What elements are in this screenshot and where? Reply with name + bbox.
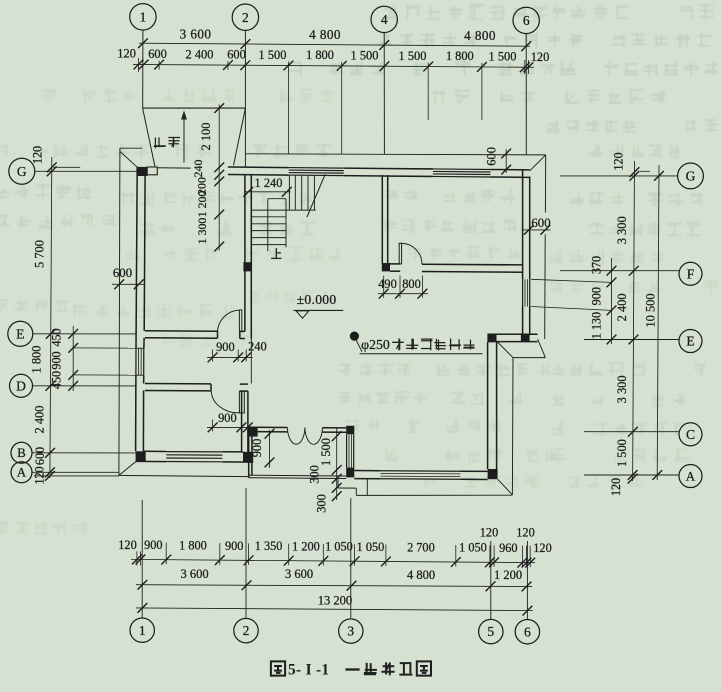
- svg-text:370: 370: [590, 256, 604, 274]
- svg-text:G: G: [17, 164, 27, 179]
- svg-text:600: 600: [148, 47, 167, 61]
- column blk bottom-left2: [243, 452, 253, 462]
- wall2 jamb right: [240, 383, 248, 385]
- left sub dim line: [72, 326, 74, 391]
- svg-text:1 050: 1 050: [357, 540, 385, 554]
- svg-text:900: 900: [50, 351, 64, 369]
- column blk hall wall: [243, 262, 251, 271]
- svg-text:450: 450: [50, 328, 64, 346]
- axis line 6 stem: [525, 34, 527, 155]
- svg-text:1 800: 1 800: [30, 346, 44, 374]
- svg-text:960: 960: [499, 541, 517, 555]
- svg-text:5 700: 5 700: [32, 240, 46, 268]
- east wall lower: [487, 342, 489, 469]
- svg-text:600: 600: [227, 48, 246, 62]
- svg-text:1 200: 1 200: [292, 539, 320, 553]
- svg-text:1 500: 1 500: [351, 49, 379, 63]
- canopy diag SE-c: [498, 479, 513, 495]
- svg-text:1: 1: [139, 623, 146, 638]
- svg-text:E: E: [686, 334, 694, 349]
- eave top line: [245, 154, 545, 155]
- svg-text:1: 1: [140, 10, 147, 25]
- svg-text:240: 240: [191, 160, 205, 178]
- eave bottom-left line: [119, 475, 249, 476]
- svg-text:5- I -1: 5- I -1: [288, 661, 329, 678]
- axis circle 1 top: [130, 4, 156, 30]
- svg-text:450: 450: [50, 371, 64, 389]
- svg-text:4 800: 4 800: [407, 568, 435, 582]
- interior wall 2 (room2 south): [145, 383, 211, 385]
- right sub dim line: [611, 258, 613, 344]
- svg-text:120: 120: [33, 466, 47, 484]
- svg-text:120: 120: [30, 146, 44, 164]
- svg-text:1 500: 1 500: [489, 50, 517, 64]
- svg-text:1 300: 1 300: [195, 218, 209, 245]
- right axis lines: [560, 175, 678, 177]
- bottom-left exterior wall: [136, 460, 167, 462]
- eave corner diagonal TL: [120, 152, 137, 168]
- window W2 top-right (1800): [433, 168, 491, 171]
- window W1 stair (1800): [289, 167, 344, 170]
- eave left vertical: [119, 148, 120, 475]
- axis circle 6 top: [513, 7, 539, 33]
- stair well lines: [267, 199, 269, 251]
- bottom axis stems: [141, 500, 143, 618]
- upper-right room west wall: [381, 175, 383, 264]
- label caption-cengpingmian: [364, 663, 377, 675]
- svg-text:600: 600: [113, 266, 132, 280]
- svg-text:300: 300: [308, 465, 322, 484]
- svg-text:900: 900: [144, 538, 162, 552]
- svg-text:2: 2: [243, 623, 250, 638]
- svg-text:13 200: 13 200: [318, 593, 352, 607]
- svg-text:3 300: 3 300: [615, 216, 629, 244]
- canopy right vertical: [511, 358, 514, 495]
- canopy diag SE-b: [538, 339, 546, 358]
- svg-text:3: 3: [347, 624, 354, 639]
- stair hall west wall: [244, 175, 246, 332]
- door D2 leaf: [239, 391, 244, 413]
- label ramp label 坡道: [154, 137, 166, 148]
- svg-text:4 800: 4 800: [309, 27, 341, 42]
- svg-text:2 100: 2 100: [199, 123, 213, 151]
- left axis lines: [35, 170, 137, 172]
- svg-text:2 400: 2 400: [186, 47, 214, 61]
- svg-text:2: 2: [242, 10, 249, 25]
- svg-text:A: A: [17, 465, 27, 480]
- upper-right room south wall: [390, 263, 400, 265]
- row1 extension lines: [165, 543, 167, 565]
- svg-text:1 200: 1 200: [494, 568, 522, 582]
- axis circle 2 top: [232, 4, 258, 30]
- svg-text:120: 120: [609, 478, 623, 496]
- east exterior wall: [522, 171, 524, 280]
- stair break diagonal: [307, 174, 325, 217]
- porch north wall + double door: [249, 426, 288, 428]
- door D3 leaf: [399, 243, 401, 264]
- svg-text:6: 6: [524, 624, 531, 639]
- left wall-edge extension at G: [54, 166, 81, 168]
- svg-text:300: 300: [315, 494, 329, 513]
- dim row 2 bottom: [136, 585, 532, 587]
- wall1 jamb at hall: [240, 330, 245, 332]
- column dot phi250: [350, 332, 359, 341]
- svg-text:1 500: 1 500: [615, 439, 629, 467]
- svg-text:G: G: [686, 169, 696, 184]
- hall floor edge line: [250, 339, 252, 384]
- column blk top-left: [137, 167, 147, 176]
- door D1 leaf: [239, 310, 241, 332]
- row B extension lines: [287, 62, 289, 154]
- stair upper flight risers: [288, 175, 290, 210]
- svg-text:4: 4: [381, 12, 388, 27]
- dim row A top (3600/4800/4800): [139, 43, 530, 46]
- bottom axis circles: [130, 618, 154, 642]
- left main dim line: [50, 157, 52, 478]
- left window ext lines: [73, 347, 136, 349]
- ramp arrow: [183, 118, 185, 163]
- right window ext lines: [531, 279, 612, 282]
- caption 图5-I-1 一层平面图: [271, 661, 285, 675]
- svg-text:1 500: 1 500: [399, 49, 427, 63]
- stair landing edge: [251, 209, 315, 211]
- column blk west wall base: [382, 263, 390, 271]
- svg-text:±0.000: ±0.000: [297, 292, 337, 307]
- axis line 4 stem: [383, 33, 385, 155]
- svg-text:D: D: [16, 378, 26, 393]
- right axis circles: [678, 163, 704, 189]
- svg-text:2 400: 2 400: [615, 293, 629, 321]
- canopy edge SE: [513, 357, 545, 359]
- double door arcs: [287, 428, 305, 445]
- door D1 swing arc: [217, 310, 239, 333]
- svg-text:1 500: 1 500: [319, 438, 333, 466]
- column blk SE-1: [487, 334, 496, 342]
- svg-text:900: 900: [225, 539, 243, 553]
- svg-text:1 500: 1 500: [259, 48, 287, 62]
- stair up label: [271, 248, 281, 258]
- svg-text:3 600: 3 600: [285, 567, 313, 581]
- svg-text:900: 900: [250, 439, 264, 458]
- divider wall left rooms: [241, 391, 243, 452]
- window W6 south (2700): [380, 470, 460, 473]
- right outer dim line 10500: [657, 165, 659, 480]
- ramp right slant: [234, 108, 246, 165]
- porch right columns/window: [346, 426, 354, 434]
- svg-text:120: 120: [516, 526, 534, 540]
- svg-text:2 700: 2 700: [407, 540, 435, 554]
- axis line 1 stem: [142, 30, 144, 108]
- svg-text:2 400: 2 400: [32, 406, 46, 434]
- svg-text:10 500: 10 500: [644, 293, 658, 327]
- eave top-left segment: [120, 147, 142, 149]
- svg-text:B: B: [17, 445, 26, 460]
- svg-text:1 350: 1 350: [255, 539, 283, 553]
- right main dim line: [633, 161, 635, 481]
- svg-text:900: 900: [590, 287, 604, 305]
- dim row B top (120/600/2400/600/1500/1800...): [133, 64, 534, 67]
- axis circle 4 top: [371, 6, 397, 32]
- svg-text:3 600: 3 600: [180, 26, 212, 41]
- dim row 1 bottom: [131, 559, 535, 562]
- entry threshold line: [157, 167, 190, 169]
- svg-text:4 800: 4 800: [464, 28, 496, 43]
- svg-text:900: 900: [216, 340, 235, 354]
- ramp top edge: [143, 107, 246, 109]
- eave corner diagonal TR: [530, 155, 546, 171]
- svg-text:120: 120: [611, 152, 625, 170]
- svg-text:3 600: 3 600: [180, 567, 208, 581]
- svg-text:1 800: 1 800: [306, 48, 334, 62]
- svg-text:600: 600: [485, 147, 499, 166]
- svg-text:120: 120: [531, 50, 550, 64]
- svg-text:E: E: [16, 326, 24, 341]
- door D2 swing arc: [211, 391, 239, 413]
- porch south wall: [249, 474, 347, 477]
- south wall BR room: [354, 470, 380, 472]
- entry pier outline: [147, 167, 157, 175]
- svg-text:120: 120: [480, 525, 498, 539]
- side entrance north wall: [487, 333, 537, 335]
- porch left wall: [248, 427, 250, 478]
- svg-text:3 300: 3 300: [615, 375, 629, 403]
- column blk porch NW: [249, 427, 258, 436]
- svg-text:C: C: [686, 427, 695, 442]
- svg-text:5: 5: [487, 624, 494, 639]
- canopy diag SE-a: [497, 341, 514, 358]
- interior wall 1 (room1 south): [145, 330, 218, 333]
- window W3 left (900): [136, 347, 144, 349]
- porch steps: [337, 479, 339, 488]
- column blk SE-3: [488, 469, 498, 479]
- eave corner diagonal BL: [119, 462, 136, 476]
- column blk SE-2: [521, 334, 530, 342]
- svg-text:1 800: 1 800: [446, 49, 474, 63]
- svg-text:120: 120: [117, 47, 136, 61]
- top exterior wall: [228, 166, 289, 169]
- column blk bottom-left: [136, 451, 146, 461]
- svg-text:1 130: 1 130: [590, 312, 604, 339]
- ramp left slant: [143, 108, 155, 167]
- canopy bottom line: [356, 494, 512, 496]
- left exterior wall: [136, 167, 137, 348]
- svg-text:1 200: 1 200: [195, 191, 209, 218]
- door D3 swing arc: [402, 243, 422, 264]
- stair lower flight treads: [251, 216, 286, 218]
- svg-text:120: 120: [118, 538, 136, 552]
- axis line 2 stem: [244, 30, 246, 167]
- label 钢筋混凝土柱: [392, 338, 404, 350]
- svg-text:6: 6: [523, 13, 530, 28]
- svg-text:900: 900: [218, 411, 237, 425]
- svg-text:1 050: 1 050: [325, 540, 353, 554]
- svg-text:1 050: 1 050: [459, 541, 487, 555]
- svg-text:1 800: 1 800: [179, 539, 207, 553]
- left axis circles: [9, 158, 35, 184]
- right wall-edge ext at G: [640, 170, 650, 172]
- svg-text:A: A: [686, 469, 696, 484]
- window W5 east (900): [522, 279, 524, 306]
- svg-text:490: 490: [378, 277, 397, 291]
- dim row 3 bottom: [136, 608, 533, 611]
- ghost bleedthrough text rows: [0, 5, 718, 536]
- window W4 bottom-left (1800): [166, 451, 222, 453]
- svg-text:F: F: [687, 266, 695, 281]
- svg-text:120: 120: [533, 541, 551, 555]
- svg-text:600: 600: [33, 447, 47, 465]
- eave right vertical: [544, 155, 546, 213]
- svg-text:φ250: φ250: [361, 337, 390, 352]
- svg-text:1 240: 1 240: [255, 176, 283, 190]
